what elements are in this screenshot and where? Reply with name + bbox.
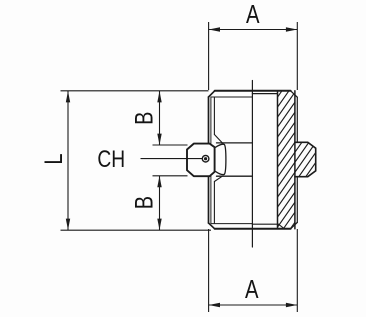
svg-text:A: A xyxy=(246,0,260,29)
svg-text:B: B xyxy=(131,112,159,125)
svg-text:CH: CH xyxy=(97,145,125,173)
svg-text:B: B xyxy=(130,196,158,209)
svg-text:L: L xyxy=(40,153,68,164)
svg-text:A: A xyxy=(245,274,259,303)
